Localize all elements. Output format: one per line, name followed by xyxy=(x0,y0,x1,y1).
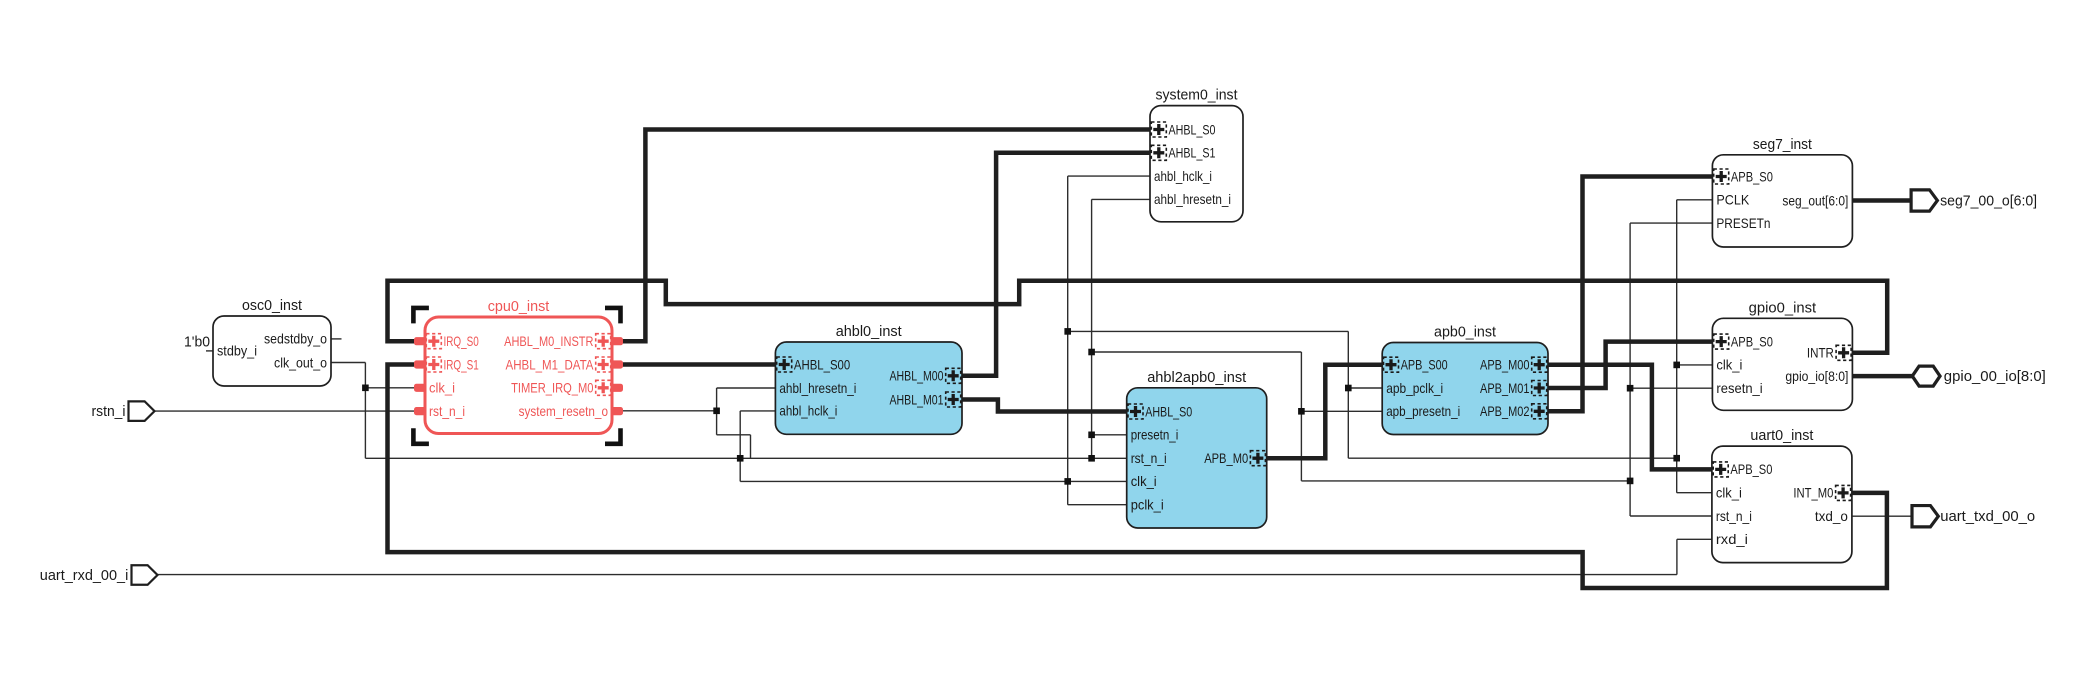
svg-text:APB_S0: APB_S0 xyxy=(1731,334,1773,349)
svg-text:apb_pclk_i: apb_pclk_i xyxy=(1386,381,1443,396)
svg-text:ahbl_hclk_i: ahbl_hclk_i xyxy=(779,404,837,419)
svg-text:rxd_i: rxd_i xyxy=(1716,532,1748,547)
svg-text:clk_i: clk_i xyxy=(1716,358,1742,373)
svg-text:AHBL_M1_DATA: AHBL_M1_DATA xyxy=(506,357,595,372)
svg-text:IRQ_S1: IRQ_S1 xyxy=(444,357,479,372)
svg-text:AHBL_S00: AHBL_S00 xyxy=(794,357,851,372)
svg-text:rst_n_i: rst_n_i xyxy=(1131,451,1167,466)
svg-text:gpio0_inst: gpio0_inst xyxy=(1749,299,1817,316)
svg-text:seg_out[6:0]: seg_out[6:0] xyxy=(1782,193,1848,208)
svg-text:gpio_00_io[8:0]: gpio_00_io[8:0] xyxy=(1944,368,2046,385)
svg-text:presetn_i: presetn_i xyxy=(1131,428,1179,443)
svg-text:clk_i: clk_i xyxy=(1131,474,1157,489)
svg-text:ahbl_hclk_i: ahbl_hclk_i xyxy=(1154,169,1212,184)
svg-text:rst_n_i: rst_n_i xyxy=(1716,509,1752,524)
svg-text:sedstdby_o: sedstdby_o xyxy=(264,332,327,347)
svg-text:gpio_io[8:0]: gpio_io[8:0] xyxy=(1785,369,1848,384)
svg-text:apb0_inst: apb0_inst xyxy=(1434,324,1497,341)
svg-text:AHBL_S0: AHBL_S0 xyxy=(1169,122,1216,137)
svg-text:IRQ_S0: IRQ_S0 xyxy=(444,334,480,349)
svg-text:APB_S0: APB_S0 xyxy=(1731,169,1773,184)
svg-text:APB_M02: APB_M02 xyxy=(1480,404,1530,419)
svg-text:resetn_i: resetn_i xyxy=(1716,381,1762,396)
svg-text:ahbl_hresetn_i: ahbl_hresetn_i xyxy=(779,381,856,396)
svg-text:system_resetn_o: system_resetn_o xyxy=(519,404,609,419)
svg-text:INT_M0: INT_M0 xyxy=(1793,486,1833,501)
svg-text:clk_i: clk_i xyxy=(1716,486,1742,501)
svg-text:AHBL_M01: AHBL_M01 xyxy=(890,392,944,407)
svg-text:APB_S00: APB_S00 xyxy=(1401,358,1448,373)
svg-text:AHBL_M00: AHBL_M00 xyxy=(890,369,944,384)
svg-text:rst_n_i: rst_n_i xyxy=(429,404,465,419)
svg-text:clk_out_o: clk_out_o xyxy=(274,355,327,370)
svg-text:ahbl0_inst: ahbl0_inst xyxy=(836,323,903,340)
svg-text:stdby_i: stdby_i xyxy=(217,344,257,359)
svg-text:system0_inst: system0_inst xyxy=(1156,87,1239,104)
svg-text:rstn_i: rstn_i xyxy=(92,403,126,420)
svg-text:AHBL_M0_INSTR: AHBL_M0_INSTR xyxy=(504,334,593,349)
svg-text:seg7_inst: seg7_inst xyxy=(1753,136,1813,153)
svg-text:cpu0_inst: cpu0_inst xyxy=(488,298,550,315)
svg-text:seg7_00_o[6:0]: seg7_00_o[6:0] xyxy=(1940,193,2037,210)
svg-text:APB_M01: APB_M01 xyxy=(1480,381,1530,396)
svg-text:PCLK: PCLK xyxy=(1716,193,1750,208)
svg-text:ahbl2apb0_inst: ahbl2apb0_inst xyxy=(1147,369,1247,386)
svg-text:PRESETn: PRESETn xyxy=(1716,216,1770,231)
svg-text:TIMER_IRQ_M0: TIMER_IRQ_M0 xyxy=(511,381,594,396)
svg-text:uart0_inst: uart0_inst xyxy=(1750,427,1814,444)
svg-text:APB_M00: APB_M00 xyxy=(1480,358,1530,373)
svg-text:AHBL_S0: AHBL_S0 xyxy=(1145,404,1192,419)
svg-text:txd_o: txd_o xyxy=(1815,509,1848,524)
svg-text:INTR: INTR xyxy=(1807,346,1834,361)
svg-text:uart_rxd_00_i: uart_rxd_00_i xyxy=(40,567,129,584)
svg-text:pclk_i: pclk_i xyxy=(1131,498,1164,513)
svg-text:APB_S0: APB_S0 xyxy=(1730,462,1772,477)
svg-text:osc0_inst: osc0_inst xyxy=(242,297,303,314)
svg-text:uart_txd_00_o: uart_txd_00_o xyxy=(1940,508,2035,525)
svg-text:1'b0: 1'b0 xyxy=(184,334,210,351)
svg-text:AHBL_S1: AHBL_S1 xyxy=(1169,146,1216,161)
svg-text:APB_M0: APB_M0 xyxy=(1204,451,1248,466)
svg-text:clk_i: clk_i xyxy=(429,381,455,396)
svg-text:apb_presetn_i: apb_presetn_i xyxy=(1386,404,1460,419)
svg-text:ahbl_hresetn_i: ahbl_hresetn_i xyxy=(1154,192,1231,207)
